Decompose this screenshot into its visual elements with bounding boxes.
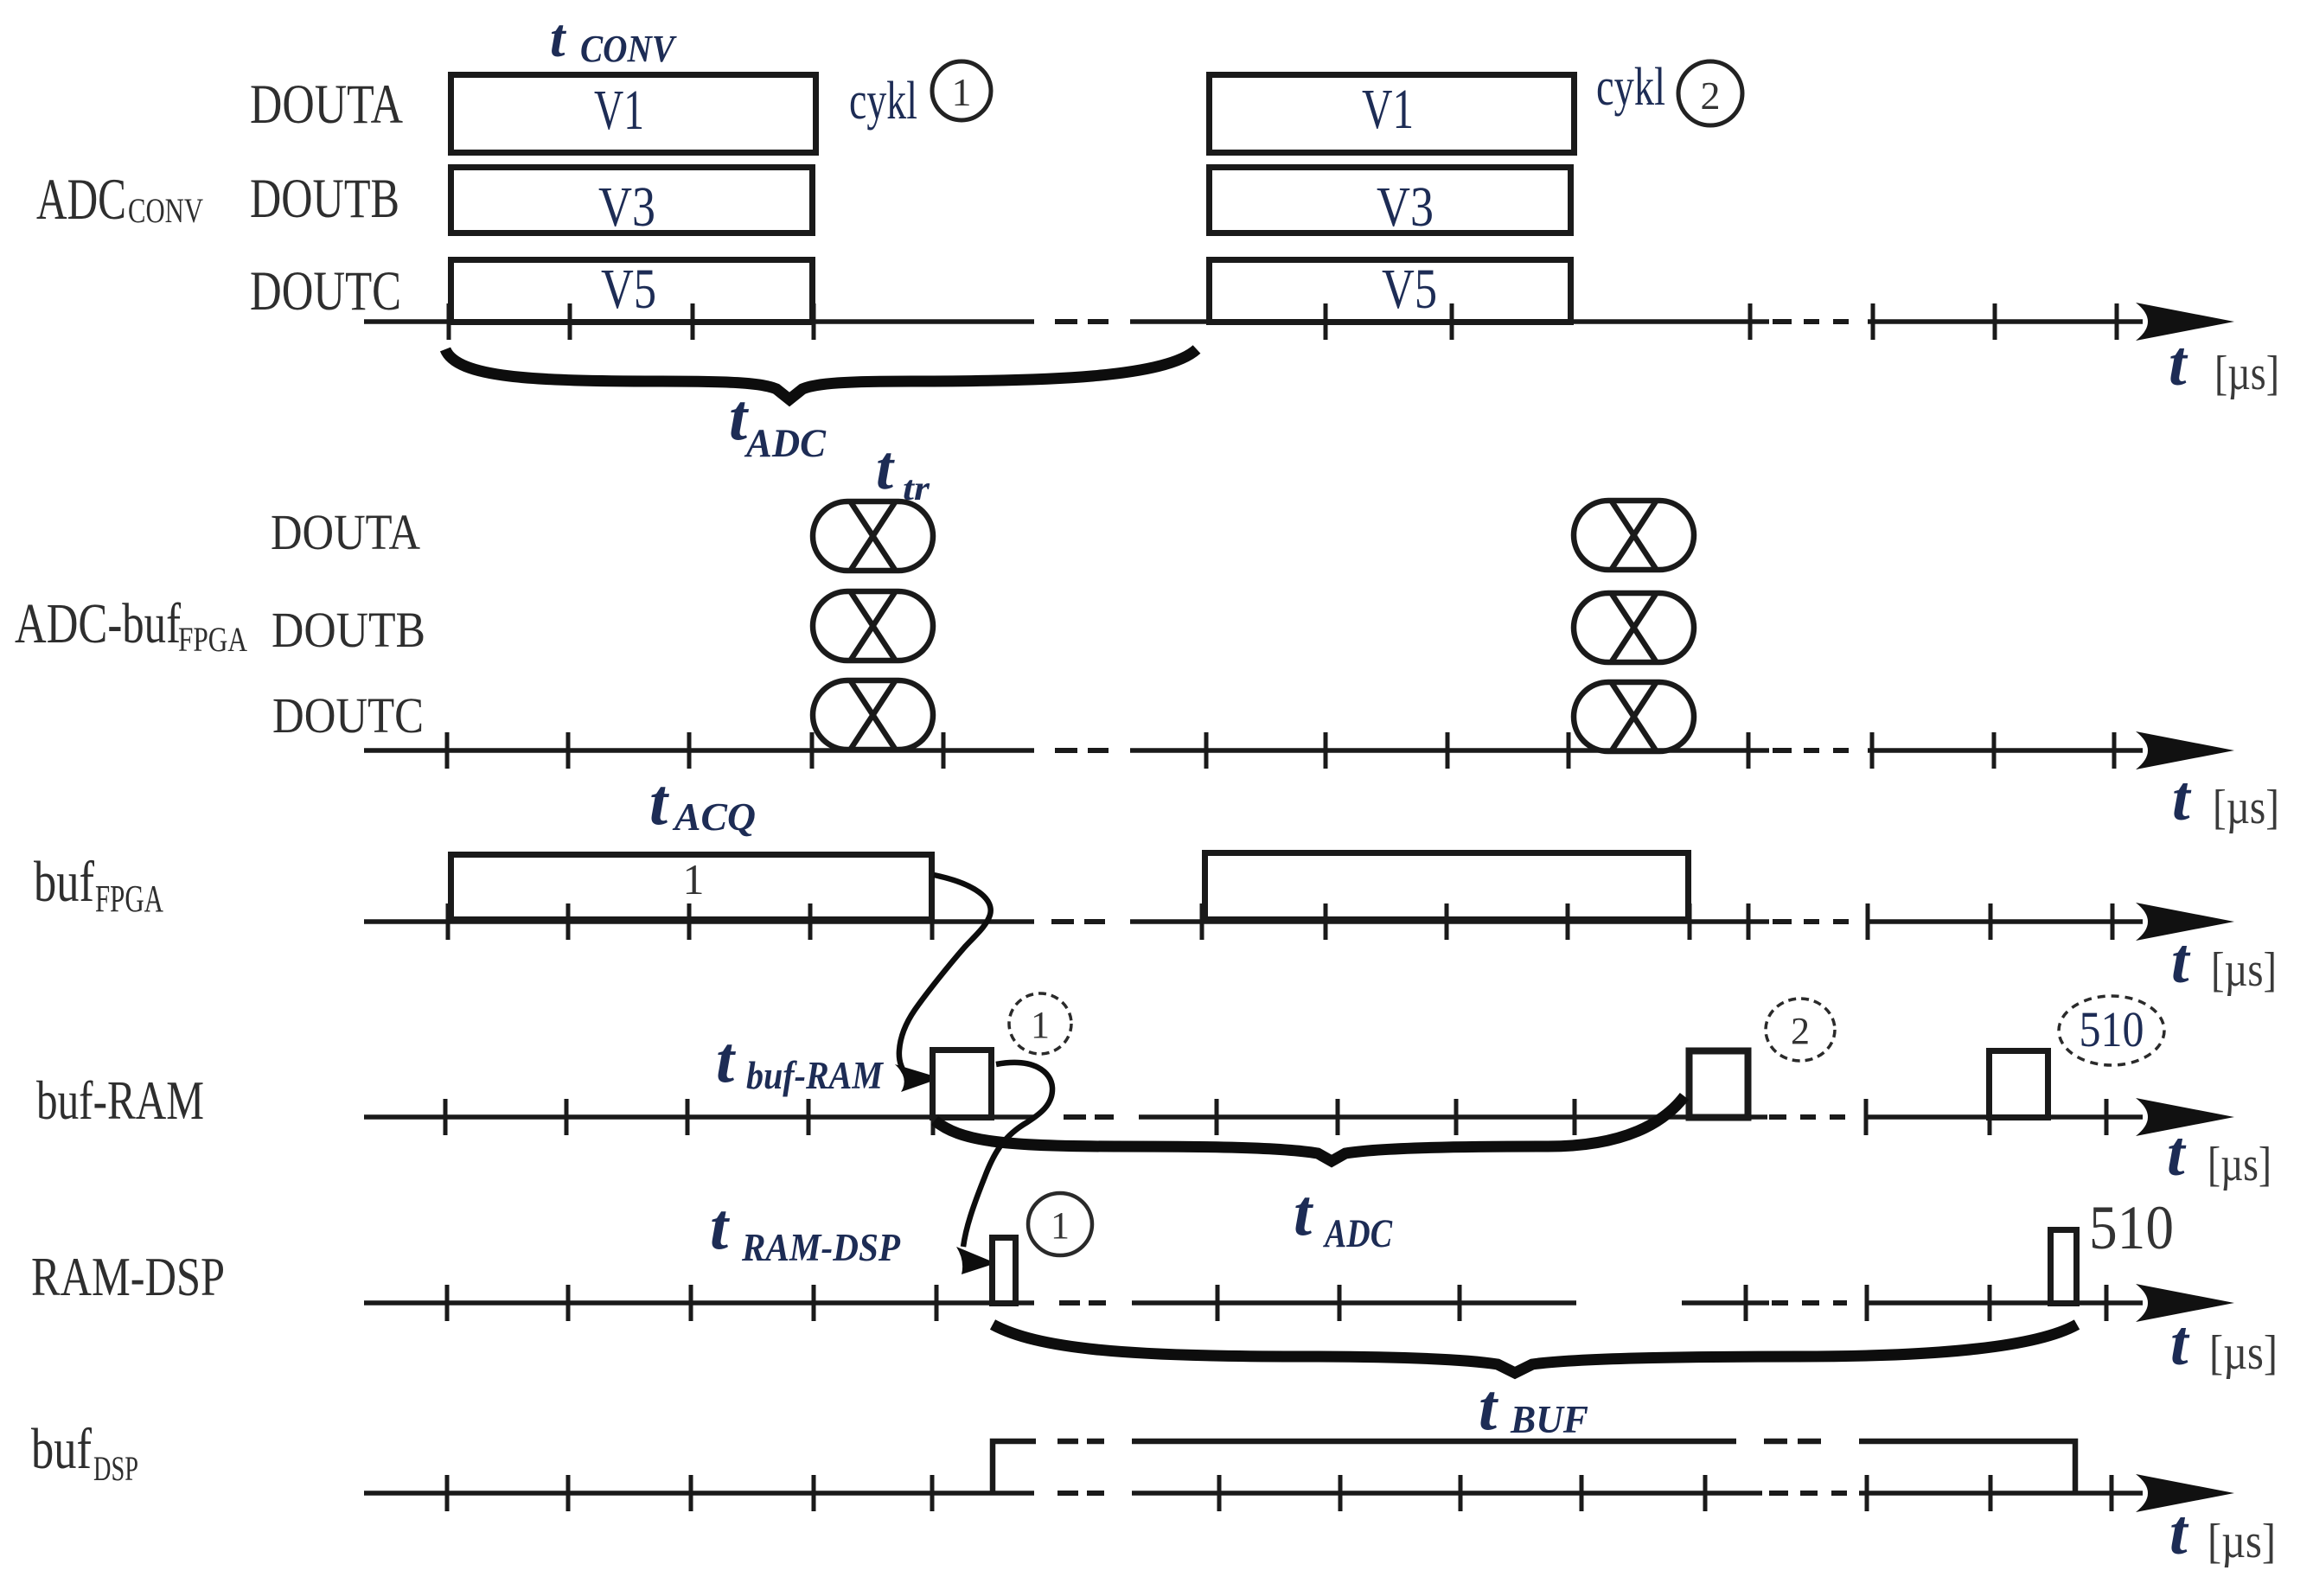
- axis 1 label t [us]: [2169, 329, 2279, 400]
- time axis 6 (buf_DSP) wire: [364, 1491, 2143, 1496]
- axis 1 arrowhead: [2136, 303, 2234, 341]
- svg-text:V3: V3: [1377, 176, 1434, 239]
- marker circle 1 (RAM-DSP): [1028, 1193, 1092, 1255]
- transfer symbol DOUTA cycle2: [1574, 501, 1694, 570]
- signal label buf-RAM: [36, 1069, 204, 1131]
- marker circle 2 (buf-RAM): [1766, 999, 1835, 1061]
- transfer symbol DOUTC cycle2: [1574, 682, 1694, 751]
- svg-text:DOUTA: DOUTA: [250, 73, 403, 136]
- brace t_BUF: [993, 1325, 2077, 1373]
- svg-text:510: 510: [2089, 1193, 2174, 1262]
- label t_ADC (row4): [1294, 1177, 1393, 1256]
- svg-text:t: t: [716, 1024, 737, 1096]
- svg-text:V5: V5: [1382, 258, 1437, 321]
- svg-text:t: t: [1479, 1371, 1499, 1444]
- signal label DOUTB (row2): [272, 602, 425, 658]
- svg-text:t: t: [2171, 926, 2191, 997]
- axis 2 tick marks: [447, 732, 2114, 769]
- svg-text:ADC-buf: ADC-buf: [15, 592, 181, 655]
- svg-text:1: 1: [1031, 1004, 1050, 1046]
- axis 2 label t [us]: [2172, 763, 2279, 834]
- axis 3 break dashes: [1051, 919, 1849, 924]
- time axis 3 (buf_FPGA) wire: [364, 919, 2143, 924]
- svg-text:DOUTC: DOUTC: [272, 687, 424, 744]
- buf_FPGA pulse cycle1: [451, 855, 932, 920]
- svg-text:t: t: [876, 433, 895, 502]
- axis 3 arrowhead: [2136, 903, 2234, 941]
- svg-text:510: 510: [2080, 1001, 2144, 1057]
- data box V1 cycle2: [1210, 75, 1575, 153]
- svg-text:ACQ: ACQ: [672, 795, 756, 839]
- svg-text:ADC: ADC: [1323, 1211, 1393, 1256]
- signal label DOUTA (row2): [271, 504, 420, 560]
- data box V1 cycle1: [451, 75, 816, 153]
- data box V5 cycle1: [451, 258, 813, 322]
- time axis 1 (ADC_CONV) wire: [364, 319, 2143, 324]
- svg-text:[µs]: [µs]: [2208, 1515, 2276, 1568]
- axis 1 tick marks: [449, 303, 2117, 340]
- signal label DOUTC (row2): [272, 687, 424, 744]
- svg-text:cykl: cykl: [1596, 58, 1665, 117]
- svg-text:t: t: [710, 1191, 731, 1263]
- svg-text:[µs]: [µs]: [2211, 943, 2277, 997]
- signal label buf_FPGA: [34, 850, 163, 920]
- svg-text:t: t: [2172, 763, 2192, 834]
- axis 6 tick marks: [447, 1475, 2112, 1511]
- svg-text:buf-RAM: buf-RAM: [746, 1054, 885, 1097]
- svg-text:V5: V5: [601, 258, 656, 321]
- svg-text:ADC: ADC: [744, 421, 826, 466]
- svg-text:[µs]: [µs]: [2214, 347, 2279, 400]
- label t_ACQ: [649, 766, 756, 839]
- svg-text:V1: V1: [594, 79, 644, 142]
- label t_CONV: [550, 8, 677, 70]
- svg-text:2: 2: [1791, 1010, 1810, 1052]
- label 510 (RAM-DSP): [2089, 1193, 2174, 1262]
- buf-RAM pulse 2: [1690, 1051, 1748, 1118]
- svg-text:1: 1: [952, 70, 972, 114]
- time axis 2 (ADC-buf) wire: [364, 748, 2143, 753]
- buf_FPGA pulse cycle2: [1205, 853, 1689, 920]
- svg-text:t: t: [2167, 1119, 2187, 1190]
- time axis 5 (RAM-DSP) wire: [364, 1300, 2143, 1306]
- signal label buf_DSP: [31, 1417, 138, 1488]
- svg-text:[µs]: [µs]: [2209, 1326, 2278, 1380]
- buf-RAM pulse 1: [933, 1050, 992, 1118]
- svg-text:1: 1: [683, 855, 705, 903]
- svg-text:t: t: [2169, 1497, 2189, 1568]
- svg-text:DOUTA: DOUTA: [271, 504, 420, 560]
- transfer symbol DOUTB cycle2: [1574, 593, 1694, 662]
- RAM-DSP pulse 510: [2051, 1230, 2077, 1304]
- arrow buf-RAM to RAM-DSP: [956, 1063, 1052, 1274]
- label cykl 1: [849, 61, 991, 131]
- signal label DOUTA (row1): [250, 73, 403, 136]
- marker oval 510 (buf-RAM): [2059, 996, 2164, 1065]
- transfer symbol DOUTA cycle1: [813, 501, 933, 571]
- RAM-DSP pulse 1: [993, 1238, 1016, 1304]
- axis 5 arrowhead: [2136, 1284, 2234, 1322]
- brace t_ADC (buf-RAM): [935, 1096, 1684, 1161]
- svg-text:1: 1: [1051, 1204, 1070, 1247]
- axis 4 tick marks: [445, 1099, 2106, 1135]
- signal group label ADC_CONV: [36, 166, 203, 232]
- svg-text:t: t: [1294, 1177, 1314, 1249]
- data box V5 cycle2: [1210, 258, 1571, 322]
- svg-text:buf-RAM: buf-RAM: [36, 1069, 204, 1131]
- axis 2 break dashes: [1055, 748, 1849, 753]
- marker circle 1 (buf-RAM): [1009, 993, 1071, 1054]
- axis 5 label t [us]: [2170, 1308, 2278, 1380]
- axis 6 break dashes: [1057, 1491, 1847, 1496]
- axis 4 label t [us]: [2167, 1119, 2271, 1191]
- svg-text:CONV: CONV: [128, 191, 203, 230]
- svg-text:V1: V1: [1362, 78, 1414, 141]
- svg-text:FPGA: FPGA: [95, 878, 163, 920]
- svg-text:DOUTC: DOUTC: [250, 260, 401, 322]
- axis 6 arrowhead: [2136, 1474, 2234, 1512]
- label t_BUF: [1479, 1371, 1588, 1444]
- label t_tr: [876, 433, 930, 508]
- buf-RAM pulse 510: [1990, 1051, 2048, 1118]
- svg-text:t: t: [2169, 329, 2188, 399]
- arrow buf_FPGA to buf-RAM: [895, 875, 991, 1092]
- label t_RAM-DSP: [710, 1191, 900, 1269]
- label t_buf-RAM: [716, 1024, 885, 1097]
- svg-text:FPGA: FPGA: [178, 620, 247, 659]
- data box V3 cycle1: [451, 168, 813, 239]
- label t_ADC (row1): [729, 381, 827, 466]
- svg-text:CONV: CONV: [580, 28, 677, 70]
- axis 6 label t [us]: [2169, 1497, 2276, 1568]
- svg-text:t: t: [2170, 1308, 2190, 1379]
- svg-text:V3: V3: [598, 176, 655, 239]
- svg-text:DOUTB: DOUTB: [250, 168, 399, 230]
- data box V3 cycle2: [1210, 168, 1571, 239]
- svg-text:buf: buf: [34, 850, 95, 914]
- svg-text:cykl: cykl: [849, 72, 917, 131]
- axis 5 break dashes: [1059, 1300, 1847, 1306]
- svg-text:buf: buf: [31, 1417, 93, 1481]
- axis 3 tick marks: [448, 903, 2112, 940]
- svg-text:ADC: ADC: [36, 166, 126, 232]
- signal label DOUTB (row1): [250, 168, 399, 230]
- axis 3 label t [us]: [2171, 926, 2277, 997]
- brace t_ADC (cycle1): [445, 349, 1197, 399]
- axis 5 tick marks: [447, 1285, 2106, 1321]
- svg-text:DSP: DSP: [93, 1449, 138, 1488]
- svg-text:BUF: BUF: [1510, 1398, 1588, 1441]
- svg-text:RAM-DSP: RAM-DSP: [741, 1226, 900, 1269]
- time axis 4 (buf-RAM) wire: [364, 1114, 2143, 1120]
- svg-text:[µs]: [µs]: [2213, 781, 2279, 834]
- transfer symbol DOUTB cycle1: [813, 591, 933, 661]
- svg-text:2: 2: [1701, 73, 1721, 118]
- signal group label ADC-buf_FPGA: [15, 592, 247, 659]
- axis 2 arrowhead: [2136, 731, 2234, 769]
- svg-text:[µs]: [µs]: [2208, 1138, 2271, 1191]
- svg-text:t: t: [649, 766, 670, 839]
- transfer symbol DOUTC cycle1: [813, 680, 933, 750]
- svg-text:RAM-DSP: RAM-DSP: [31, 1246, 225, 1307]
- label cykl 2: [1596, 58, 1742, 125]
- signal label RAM-DSP: [31, 1246, 225, 1307]
- axis 1 break dashes: [1055, 319, 1849, 324]
- axis 4 arrowhead: [2136, 1098, 2234, 1136]
- signal label DOUTC (row1): [250, 260, 401, 322]
- buf_DSP signal waveform: [993, 1441, 2075, 1493]
- svg-text:t: t: [550, 8, 567, 68]
- axis 4 break dashes: [1064, 1114, 1845, 1120]
- svg-text:DOUTB: DOUTB: [272, 602, 425, 658]
